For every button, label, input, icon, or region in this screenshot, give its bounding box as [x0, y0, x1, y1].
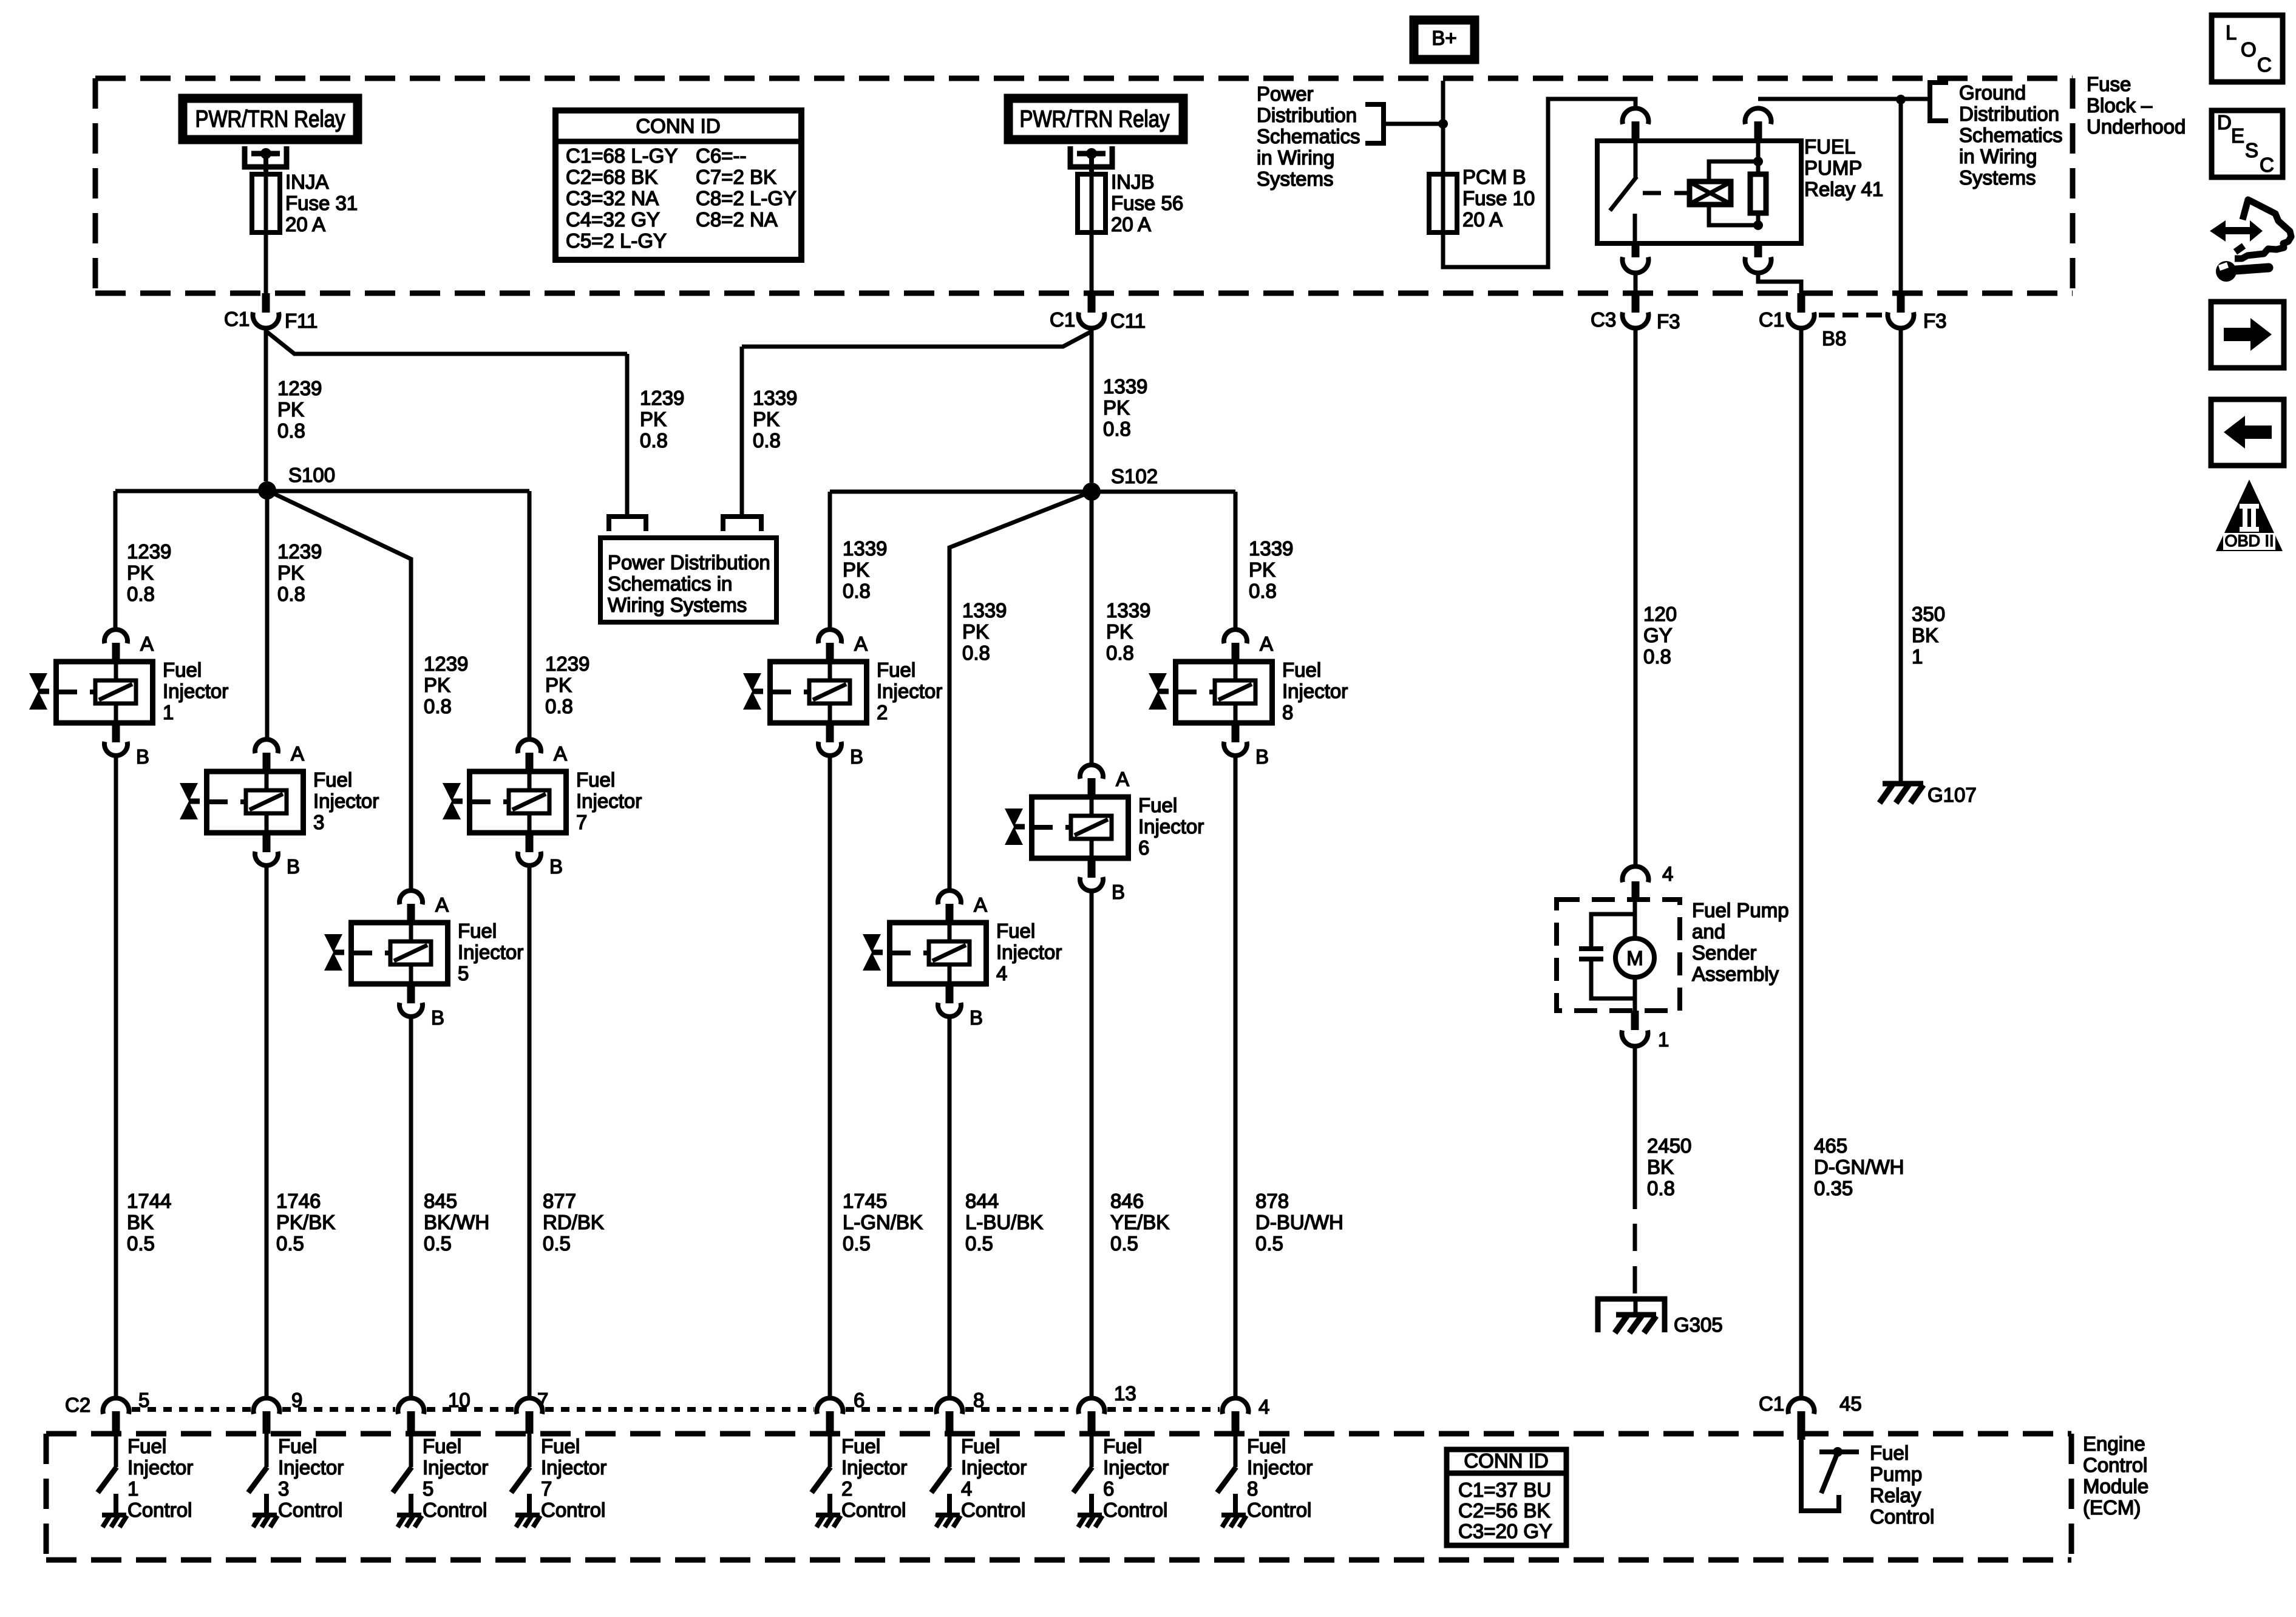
svg-text:Fuse 10: Fuse 10 [1462, 187, 1535, 209]
svg-text:0.8: 0.8 [127, 583, 155, 605]
svg-text:GY: GY [1643, 624, 1673, 646]
svg-text:0.5: 0.5 [965, 1232, 993, 1255]
svg-text:Control: Control [127, 1499, 192, 1521]
svg-text:A: A [1116, 768, 1129, 790]
svg-text:Control: Control [841, 1499, 906, 1521]
svg-text:Control: Control [2083, 1454, 2147, 1476]
svg-text:Fuel: Fuel [576, 768, 615, 791]
svg-text:C7=2 BK: C7=2 BK [696, 166, 776, 188]
svg-text:20 A: 20 A [285, 213, 325, 236]
svg-text:1239: 1239 [277, 540, 322, 563]
svg-text:L: L [2226, 21, 2237, 44]
svg-text:Injector: Injector [1247, 1456, 1313, 1479]
svg-text:4: 4 [1662, 863, 1673, 885]
svg-text:C1: C1 [1050, 308, 1075, 331]
svg-text:Fuel: Fuel [1282, 659, 1321, 681]
svg-text:YE/BK: YE/BK [1110, 1211, 1169, 1233]
svg-text:C1: C1 [1759, 1392, 1784, 1415]
svg-text:Control: Control [1870, 1505, 1934, 1528]
svg-text:BK/WH: BK/WH [424, 1211, 489, 1233]
svg-text:Injector: Injector [961, 1456, 1027, 1479]
svg-text:4: 4 [996, 962, 1007, 985]
svg-text:1339: 1339 [753, 387, 797, 409]
svg-text:PK: PK [277, 398, 304, 421]
svg-text:BK: BK [1912, 624, 1938, 646]
svg-text:0.8: 0.8 [277, 583, 305, 605]
svg-text:0.8: 0.8 [1643, 645, 1671, 668]
svg-text:Fuel: Fuel [423, 1435, 461, 1457]
svg-text:OBD II: OBD II [2224, 532, 2274, 550]
svg-text:Fuel: Fuel [163, 659, 202, 681]
svg-text:0.8: 0.8 [1106, 642, 1134, 664]
svg-text:in Wiring: in Wiring [1959, 145, 2037, 168]
svg-text:S102: S102 [1111, 465, 1158, 487]
svg-text:C1: C1 [224, 308, 250, 330]
svg-text:0.5: 0.5 [424, 1232, 452, 1255]
svg-text:A: A [435, 893, 449, 916]
svg-text:Injector: Injector [313, 790, 379, 812]
svg-text:and: and [1692, 920, 1725, 943]
svg-text:Assembly: Assembly [1692, 963, 1779, 985]
svg-text:0.8: 0.8 [424, 695, 452, 717]
svg-text:PK: PK [640, 408, 667, 430]
svg-text:C8=2 L-GY: C8=2 L-GY [696, 187, 796, 209]
svg-text:E: E [2231, 124, 2244, 147]
svg-text:0.5: 0.5 [127, 1232, 155, 1255]
svg-text:Control: Control [423, 1499, 487, 1521]
svg-text:20 A: 20 A [1111, 213, 1151, 236]
svg-text:A: A [974, 893, 987, 916]
svg-text:L-BU/BK: L-BU/BK [965, 1211, 1043, 1233]
svg-text:L-GN/BK: L-GN/BK [843, 1211, 923, 1233]
svg-text:Injector: Injector [278, 1456, 344, 1479]
svg-text:PK: PK [1249, 558, 1275, 581]
svg-text:C11: C11 [1110, 310, 1146, 332]
svg-text:Injector: Injector [841, 1456, 907, 1479]
svg-text:PK: PK [753, 408, 779, 430]
svg-text:Injector: Injector [423, 1456, 488, 1479]
svg-text:844: 844 [965, 1190, 999, 1212]
svg-text:A: A [1260, 632, 1273, 655]
svg-text:6: 6 [1103, 1477, 1114, 1500]
svg-text:0.8: 0.8 [753, 429, 781, 452]
svg-text:A: A [554, 742, 567, 765]
svg-text:2: 2 [877, 701, 888, 724]
svg-text:BK: BK [127, 1211, 154, 1233]
svg-text:Fuel: Fuel [1103, 1435, 1142, 1457]
svg-text:B: B [136, 745, 149, 768]
svg-text:1746: 1746 [276, 1190, 321, 1212]
svg-text:1: 1 [127, 1477, 138, 1500]
svg-text:Injector: Injector [458, 941, 523, 963]
svg-text:Control: Control [961, 1499, 1025, 1521]
svg-text:5: 5 [138, 1389, 149, 1411]
svg-text:F11: F11 [285, 310, 318, 332]
svg-text:0.8: 0.8 [277, 419, 305, 442]
svg-text:8: 8 [1282, 701, 1293, 724]
svg-text:D-GN/WH: D-GN/WH [1814, 1156, 1904, 1178]
svg-text:1239: 1239 [640, 387, 684, 409]
svg-text:20 A: 20 A [1462, 208, 1503, 231]
svg-text:Injector: Injector [163, 680, 228, 702]
svg-text:CONN ID: CONN ID [636, 115, 720, 137]
svg-text:INJA: INJA [285, 171, 329, 193]
svg-text:0.35: 0.35 [1814, 1177, 1853, 1199]
svg-text:0.5: 0.5 [276, 1232, 304, 1255]
svg-text:Fuel Pump: Fuel Pump [1692, 899, 1789, 921]
svg-text:Fuel: Fuel [458, 920, 497, 942]
svg-text:M: M [1626, 947, 1643, 969]
svg-text:Power: Power [1257, 83, 1314, 105]
svg-text:PK: PK [277, 561, 304, 584]
svg-text:Fuel: Fuel [127, 1435, 166, 1457]
svg-text:Injector: Injector [541, 1456, 606, 1479]
svg-text:C4=32 GY: C4=32 GY [566, 208, 660, 231]
svg-text:in Wiring: in Wiring [1257, 146, 1334, 169]
svg-text:7: 7 [576, 811, 587, 833]
svg-text:Control: Control [541, 1499, 605, 1521]
svg-text:Fuel: Fuel [1247, 1435, 1286, 1457]
svg-text:0.8: 0.8 [545, 695, 573, 717]
svg-text:Relay: Relay [1870, 1484, 1921, 1507]
svg-text:C5=2 L-GY: C5=2 L-GY [566, 229, 667, 252]
svg-text:1: 1 [163, 701, 174, 724]
svg-text:Systems: Systems [1959, 166, 2036, 189]
svg-text:F3: F3 [1657, 310, 1680, 333]
svg-text:0.8: 0.8 [1249, 580, 1277, 602]
svg-text:Ground: Ground [1959, 81, 2026, 104]
svg-text:Injector: Injector [127, 1456, 193, 1479]
svg-text:0.5: 0.5 [1255, 1232, 1283, 1255]
svg-text:5: 5 [458, 962, 469, 985]
svg-text:Wiring Systems: Wiring Systems [608, 594, 747, 616]
svg-text:845: 845 [424, 1190, 457, 1212]
svg-text:350: 350 [1912, 603, 1945, 625]
svg-text:INJB: INJB [1111, 171, 1155, 193]
svg-text:Schematics: Schematics [1959, 124, 2063, 146]
svg-text:C: C [2257, 53, 2272, 76]
svg-text:3: 3 [313, 811, 324, 833]
svg-text:B: B [850, 745, 863, 768]
svg-text:1339: 1339 [1249, 537, 1293, 560]
svg-text:C1=68 L-GY: C1=68 L-GY [566, 144, 678, 167]
svg-text:(ECM): (ECM) [2083, 1496, 2141, 1519]
svg-text:Fuse 56: Fuse 56 [1111, 192, 1183, 214]
svg-text:D-BU/WH: D-BU/WH [1255, 1211, 1343, 1233]
svg-text:A: A [140, 632, 154, 655]
svg-text:465: 465 [1814, 1134, 1847, 1157]
svg-text:Module: Module [2083, 1475, 2148, 1497]
svg-text:B: B [970, 1006, 983, 1029]
svg-text:846: 846 [1110, 1190, 1144, 1212]
svg-text:PK: PK [962, 620, 989, 643]
svg-text:PK: PK [1106, 620, 1133, 643]
svg-text:Sender: Sender [1692, 941, 1756, 964]
svg-text:Fuel: Fuel [841, 1435, 880, 1457]
svg-text:Engine: Engine [2083, 1432, 2145, 1455]
svg-text:1239: 1239 [545, 653, 589, 675]
svg-text:C8=2 NA: C8=2 NA [696, 208, 778, 231]
svg-text:6: 6 [1138, 836, 1149, 859]
svg-text:7: 7 [537, 1389, 548, 1411]
svg-text:Relay 41: Relay 41 [1804, 178, 1883, 200]
svg-text:Injector: Injector [1103, 1456, 1169, 1479]
svg-text:0.8: 0.8 [843, 580, 871, 602]
svg-text:A: A [854, 632, 868, 655]
svg-text:8: 8 [973, 1389, 984, 1411]
svg-text:1239: 1239 [127, 540, 171, 563]
svg-text:B+: B+ [1432, 27, 1456, 49]
svg-text:8: 8 [1247, 1477, 1258, 1500]
svg-text:G305: G305 [1674, 1314, 1723, 1336]
svg-text:5: 5 [423, 1477, 433, 1500]
svg-text:B: B [549, 855, 563, 878]
svg-text:1239: 1239 [424, 653, 468, 675]
svg-text:B: B [1255, 745, 1269, 768]
svg-text:C1=37 BU: C1=37 BU [1458, 1479, 1551, 1501]
svg-text:PUMP: PUMP [1804, 157, 1862, 179]
svg-text:B: B [287, 855, 300, 878]
svg-text:RD/BK: RD/BK [543, 1211, 604, 1233]
svg-text:Injector: Injector [576, 790, 642, 812]
svg-text:Injector: Injector [1138, 815, 1204, 838]
svg-text:C6=--: C6=-- [696, 144, 746, 167]
svg-text:10: 10 [448, 1389, 470, 1411]
svg-text:CONN ID: CONN ID [1464, 1449, 1548, 1472]
svg-text:13: 13 [1114, 1382, 1136, 1405]
svg-text:Distribution: Distribution [1959, 103, 2059, 125]
svg-text:Control: Control [278, 1499, 342, 1521]
svg-text:Control: Control [1103, 1499, 1167, 1521]
svg-text:4: 4 [961, 1477, 972, 1500]
svg-text:1339: 1339 [962, 599, 1007, 622]
svg-text:FUEL: FUEL [1804, 135, 1855, 158]
svg-text:O: O [2241, 38, 2257, 61]
svg-text:45: 45 [1839, 1392, 1862, 1415]
svg-text:0.5: 0.5 [1110, 1232, 1138, 1255]
svg-text:1745: 1745 [843, 1190, 887, 1212]
svg-text:F3: F3 [1923, 310, 1947, 332]
svg-text:Fuel: Fuel [1870, 1442, 1909, 1464]
svg-text:PWR/TRN Relay: PWR/TRN Relay [1020, 106, 1170, 132]
svg-text:Fuel: Fuel [278, 1435, 317, 1457]
svg-text:G107: G107 [1927, 784, 1977, 806]
svg-text:C: C [2260, 154, 2274, 176]
svg-text:S100: S100 [288, 464, 335, 486]
svg-text:1239: 1239 [277, 377, 322, 399]
svg-text:PK: PK [1103, 396, 1130, 419]
svg-text:C3=20 GY: C3=20 GY [1458, 1520, 1552, 1542]
svg-text:0.5: 0.5 [543, 1232, 571, 1255]
svg-text:A: A [291, 742, 304, 765]
svg-text:Fuse 31: Fuse 31 [285, 192, 358, 214]
svg-text:Block –: Block – [2087, 94, 2153, 117]
svg-text:1339: 1339 [1103, 375, 1147, 398]
svg-text:4: 4 [1258, 1395, 1269, 1418]
svg-text:B8: B8 [1822, 327, 1846, 350]
svg-text:6: 6 [854, 1389, 864, 1411]
svg-text:120: 120 [1643, 603, 1677, 625]
svg-text:Fuel: Fuel [1138, 794, 1177, 816]
svg-text:7: 7 [541, 1477, 552, 1500]
svg-text:1: 1 [1658, 1028, 1669, 1051]
svg-text:Injector: Injector [996, 941, 1062, 963]
svg-text:0.5: 0.5 [843, 1232, 871, 1255]
svg-text:Fuel: Fuel [996, 920, 1035, 942]
svg-text:0.8: 0.8 [640, 429, 668, 452]
svg-text:D: D [2217, 111, 2232, 134]
svg-text:PCM B: PCM B [1462, 166, 1526, 188]
svg-text:1: 1 [1912, 645, 1923, 668]
svg-text:Power Distribution: Power Distribution [608, 551, 770, 574]
svg-text:S: S [2245, 139, 2258, 161]
svg-text:BK: BK [1647, 1156, 1674, 1178]
svg-text:C3=32 NA: C3=32 NA [566, 187, 659, 209]
svg-text:C3: C3 [1591, 308, 1616, 331]
svg-text:Distribution: Distribution [1257, 104, 1357, 126]
svg-text:PK/BK: PK/BK [276, 1211, 335, 1233]
svg-text:Systems: Systems [1257, 168, 1334, 190]
svg-text:C2=68 BK: C2=68 BK [566, 166, 657, 188]
svg-text:C2: C2 [65, 1394, 90, 1416]
svg-text:Underhood: Underhood [2087, 115, 2186, 138]
svg-text:Pump: Pump [1870, 1463, 1922, 1485]
svg-text:PWR/TRN Relay: PWR/TRN Relay [195, 106, 345, 132]
svg-text:PK: PK [843, 558, 869, 581]
svg-text:PK: PK [424, 674, 450, 696]
svg-text:1339: 1339 [843, 537, 887, 560]
svg-text:Fuel: Fuel [877, 659, 915, 681]
svg-text:Injector: Injector [1282, 680, 1348, 702]
svg-text:C2=56 BK: C2=56 BK [1458, 1499, 1550, 1522]
svg-text:Fuel: Fuel [541, 1435, 580, 1457]
svg-text:PK: PK [127, 561, 154, 584]
svg-text:B: B [1112, 881, 1125, 903]
svg-text:3: 3 [278, 1477, 289, 1500]
svg-text:878: 878 [1255, 1190, 1289, 1212]
svg-text:1339: 1339 [1106, 599, 1150, 622]
svg-text:Control: Control [1247, 1499, 1311, 1521]
svg-text:Fuse: Fuse [2087, 73, 2131, 95]
svg-text:2450: 2450 [1647, 1134, 1691, 1157]
svg-text:Injector: Injector [877, 680, 942, 702]
svg-text:C1: C1 [1759, 308, 1784, 331]
svg-text:2: 2 [841, 1477, 852, 1500]
svg-text:1744: 1744 [127, 1190, 171, 1212]
svg-text:Fuel: Fuel [961, 1435, 1000, 1457]
svg-text:9: 9 [291, 1389, 302, 1411]
svg-text:0.8: 0.8 [1647, 1177, 1675, 1199]
svg-text:0.8: 0.8 [962, 642, 990, 664]
svg-text:PK: PK [545, 674, 572, 696]
svg-text:Fuel: Fuel [313, 768, 352, 791]
svg-text:Schematics in: Schematics in [608, 572, 732, 595]
svg-text:877: 877 [543, 1190, 576, 1212]
svg-text:B: B [431, 1006, 444, 1029]
svg-text:0.8: 0.8 [1103, 418, 1131, 440]
svg-text:Schematics: Schematics [1257, 125, 1360, 147]
